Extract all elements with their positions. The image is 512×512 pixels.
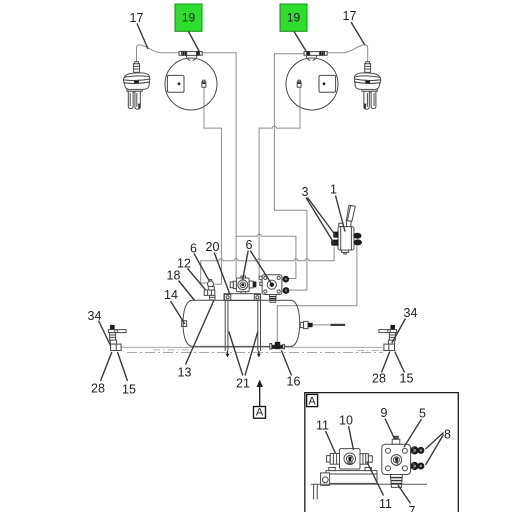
inset A corner label box [307,394,318,406]
svg-text:34: 34 [404,306,418,320]
right bottom port (black) [283,287,290,294]
leader 12 [188,269,206,290]
drain valve 16 at tank bottom [270,342,285,349]
leader 6 right (V to both valves) [243,251,272,284]
inset leader 9 [385,419,395,439]
top-left ear [259,276,262,279]
leader 18 [179,281,195,301]
leader 16 [281,350,291,375]
air dryer (bell) right (mirror) [325,45,381,109]
bell legs collar [127,89,142,91]
left port hexes [233,281,236,288]
highlight box 19 right [280,4,307,31]
height control valve 34 right (mirror) [379,325,397,351]
svg-text:34: 34 [88,309,102,323]
bell center latch [134,81,139,85]
wire: bell air line to fitting [137,45,180,64]
leader 3 (two lines to U1 left ports) [306,198,336,245]
bell mid band [124,79,150,84]
inset relay valve (right, items 5/9) [382,436,425,487]
right port hexes [249,281,253,288]
leader 19 left [189,32,200,53]
boss circles [238,280,248,290]
svg-text:14: 14 [164,288,178,302]
exhaust spring 7 below [390,475,402,488]
svg-text:A: A [256,407,264,419]
axle center dash-dot line [127,351,383,353]
leader 28 right [382,352,390,373]
top tab [241,276,246,278]
elbow fitting 12/18 [204,287,215,300]
air dryer (bell) left : stem, air line, dome, bowl, legs [124,45,180,109]
leader 6 left [194,254,209,281]
tank lower port fitting [202,82,206,87]
svg-text:28: 28 [91,382,105,396]
tank mounting plate [224,294,261,301]
view arrow A [254,380,266,419]
quick release valve 6 (right square) [259,275,289,303]
top port 9 [392,439,400,444]
svg-text:1: 1 [330,183,337,197]
svg-text:15: 15 [122,383,136,397]
wire: axle frame line across [121,346,383,348]
bell dome cap [124,73,150,81]
inset leader 7 [398,485,411,504]
brake control valve U1 (item 1) [331,205,362,254]
body [338,227,354,250]
right ports black [353,233,361,239]
boss [344,453,356,465]
svg-text:9: 9 [381,406,388,420]
top handle (treadle) [346,205,355,221]
leader 21 (V to tank straps) [229,332,258,376]
inset leader 11 bottom [367,462,384,496]
leader 34 left [99,321,111,346]
inset leveling valve (left, items 10/11) [327,449,373,469]
svg-text:19: 19 [182,11,196,25]
inset leader 10 [349,426,354,450]
leader 20 [214,253,229,294]
svg-text:3: 3 [302,185,309,199]
inset frame line [311,483,427,485]
svg-text:8: 8 [444,428,451,442]
left ports black [333,232,339,238]
extra phantom dashes [153,349,397,352]
svg-text:19: 19 [287,11,301,25]
svg-text:A: A [308,396,316,408]
svg-text:6: 6 [190,241,197,255]
tank straps (item 21) [225,301,261,358]
tank data plate [167,75,184,92]
bell stem [134,64,140,73]
air tank (circle) left [165,56,217,110]
air reservoir (horizontal tank) [182,300,300,346]
leader 19 right [294,32,306,52]
inset leader 11 top [326,431,336,454]
inset leader 8 (two lines) [426,433,444,466]
svg-text:18: 18 [167,269,181,283]
svg-text:17: 17 [130,11,144,25]
wire: left tank lower port line down to bracket [204,87,221,284]
inset mounting bracket rail [321,468,377,486]
bottom tab [241,292,246,294]
svg-text:17: 17 [343,9,357,23]
inset view A border [305,393,459,512]
leader 34 right [392,319,406,344]
svg-text:28: 28 [372,372,386,386]
right ports 8 (two black washer pairs) [411,446,425,454]
tank top fitting right (mirror) [304,51,327,56]
check valve 6 (left ball check) [208,280,214,287]
svg-text:21: 21 [236,377,250,391]
svg-text:13: 13 [178,366,192,380]
svg-text:11: 11 [316,419,329,433]
left port hex + stem [330,453,339,464]
svg-text:11: 11 [379,497,392,511]
tank top fitting left (item 19 target) [179,51,202,56]
leader 13 [186,301,214,365]
wire: tank right end hose stub [313,324,331,326]
leader 1 [336,196,346,232]
wire: right tank lower port line crossing to left [259,87,300,276]
height control valve 34 left [108,325,126,351]
right top port (black) [283,276,290,283]
wire: valve U1 delivery line down-left to tank bottom fitting [277,245,357,341]
leader 15 left [118,352,128,381]
svg-text:6: 6 [246,238,253,252]
right port hex + stem [360,454,368,465]
svg-text:5: 5 [419,407,426,421]
tank left end port 14 area [182,321,187,327]
svg-text:16: 16 [287,375,301,389]
bell lower bowl [124,82,149,90]
svg-text:10: 10 [339,414,353,428]
wire: branch from service line at y=235.2 to quick release valve top port [236,234,296,278]
svg-text:20: 20 [206,240,220,254]
bracket hanging tab with hole [321,473,330,486]
leader 17 right [351,22,365,45]
wire: left tank top fitting service line (down to valve 20 supply) [202,53,236,278]
pressure protection valve 20 [230,276,256,294]
highlight box 19 left [175,4,202,31]
strap feet [227,351,229,354]
wire: right tank top fitting service line [274,54,307,290]
bottom tab [342,250,349,252]
wire: valve 20 right port to quick release valve left port [259,283,263,285]
inset leader 5 [404,419,422,447]
bell legs [128,91,133,108]
svg-text:7: 7 [409,504,416,512]
wire: check valve to control valve U1 supply line [201,247,334,284]
leader 28 left [101,352,112,381]
air tank (circle) right (mirror) [286,56,338,110]
svg-text:15: 15 [400,372,414,386]
left port stub [260,282,262,285]
tank right end fitting [300,321,312,328]
exhaust spring below [269,295,276,303]
leader 17 left [137,24,148,50]
neck curves to fitting [186,56,196,61]
leader 14 [171,301,185,324]
leader 15 right [395,352,405,373]
